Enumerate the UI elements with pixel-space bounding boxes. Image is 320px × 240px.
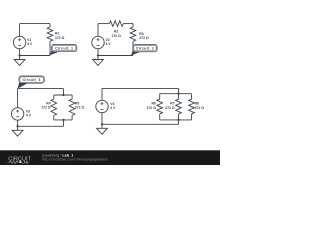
footer bar bbox=[0, 150, 220, 165]
flag Circuit_1 bbox=[50, 45, 77, 56]
svg-text:Circuit_1: Circuit_1 bbox=[55, 46, 73, 50]
parallel bottom wire bbox=[160, 119, 192, 121]
svg-text:272 Ω: 272 Ω bbox=[75, 106, 85, 110]
wire V4 bottom bbox=[101, 113, 103, 125]
circuit 2: bottom wire bbox=[98, 55, 133, 57]
parallel bottom wire bbox=[54, 119, 72, 121]
svg-text:Circuit_3: Circuit_3 bbox=[22, 78, 40, 82]
logo accent block bbox=[19, 161, 21, 163]
svg-text:joeaxberg / Lab_1: joeaxberg / Lab_1 bbox=[42, 153, 74, 157]
node dot bottom bbox=[177, 119, 179, 121]
wire V2 top bbox=[97, 24, 99, 37]
svg-text:172 Ω: 172 Ω bbox=[112, 34, 122, 38]
circuit 1: top wire bbox=[20, 23, 50, 25]
circuit 4: top wire bbox=[102, 87, 179, 89]
node junction circuit4 ground bbox=[101, 123, 103, 125]
wire V1 top bbox=[19, 24, 21, 37]
flag Circuit_2 bbox=[131, 45, 157, 56]
node dot top bbox=[177, 93, 179, 95]
node junction circuit3 ground bbox=[16, 125, 18, 127]
circuit 3: bottom wire bbox=[18, 125, 64, 127]
circuit 1: bottom wire bbox=[20, 55, 50, 57]
wire V3 top bbox=[17, 89, 19, 108]
wire R2 to corner bbox=[123, 23, 133, 25]
resistor R3 bbox=[132, 24, 134, 27]
resistor R2 bbox=[109, 21, 123, 27]
wire V2 bottom bbox=[97, 49, 99, 56]
svg-text:272 Ω: 272 Ω bbox=[139, 36, 149, 40]
resistor R1 bbox=[49, 24, 51, 27]
voltage source V2 bbox=[92, 36, 104, 48]
voltage source V3 bbox=[11, 108, 23, 120]
stub to bottom wire bbox=[63, 120, 65, 126]
svg-text:372 Ω: 372 Ω bbox=[195, 106, 205, 110]
circuit 3: top wire bbox=[18, 88, 64, 90]
wire V4 top bbox=[101, 88, 103, 100]
circuit 4: bottom wire bbox=[102, 123, 179, 125]
wire V1 bottom bbox=[19, 49, 21, 56]
svg-text:4 V: 4 V bbox=[27, 42, 33, 46]
resistor R5 bbox=[71, 95, 73, 99]
logo resistor squiggle bbox=[8, 161, 20, 164]
wire V3 bottom bbox=[17, 120, 19, 126]
svg-text:272 Ω: 272 Ω bbox=[165, 106, 175, 110]
ground (circuit 1) bbox=[14, 56, 25, 66]
svg-text:172 Ω: 172 Ω bbox=[55, 36, 65, 40]
resistor R7 bbox=[178, 94, 180, 100]
voltage source V4 bbox=[96, 100, 108, 112]
corner down to parallel top bbox=[178, 88, 180, 93]
svg-text:LAB: LAB bbox=[21, 161, 29, 165]
node dot top bbox=[62, 94, 64, 96]
ground (circuit 4) bbox=[97, 124, 108, 134]
voltage source V1 bbox=[13, 36, 25, 48]
svg-text:172 Ω: 172 Ω bbox=[41, 106, 51, 110]
parallel top wire bbox=[54, 94, 72, 96]
stub to bottom wire bbox=[178, 120, 180, 124]
ground (circuit 2) bbox=[93, 56, 104, 66]
stub to parallel top bbox=[63, 89, 65, 95]
svg-text:4 V: 4 V bbox=[26, 114, 32, 118]
node junction circuit1 ground bbox=[18, 54, 20, 56]
circuit 2: top-left wire bbox=[98, 23, 109, 25]
svg-text:172 Ω: 172 Ω bbox=[146, 106, 156, 110]
svg-text:http://circuitlab.com/c/4myqwg: http://circuitlab.com/c/4myqwgaqwjx8e9 bbox=[42, 158, 107, 162]
svg-text:4 V: 4 V bbox=[110, 106, 116, 110]
parallel top wire bbox=[160, 93, 192, 95]
resistor R4 bbox=[53, 95, 55, 99]
resistor R6 bbox=[159, 94, 161, 100]
svg-text:4 V: 4 V bbox=[106, 42, 112, 46]
resistor R8 bbox=[191, 94, 193, 100]
node junction circuit2 ground bbox=[97, 54, 99, 56]
node dot bottom bbox=[62, 119, 64, 121]
svg-text:Circuit_2: Circuit_2 bbox=[136, 46, 154, 50]
flag Circuit_3 bbox=[18, 76, 45, 89]
ground (circuit 3) bbox=[12, 126, 23, 136]
